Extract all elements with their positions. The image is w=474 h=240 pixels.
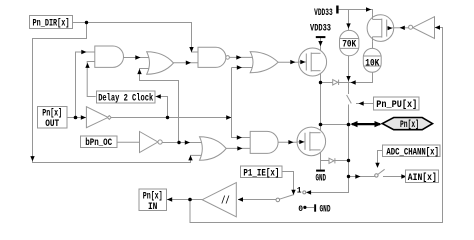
svg-text:Pn[x]: Pn[x]: [400, 119, 419, 131]
svg-text://: //: [221, 196, 230, 208]
svg-text:OUT: OUT: [45, 119, 59, 130]
svg-text:AIN[x]: AIN[x]: [408, 172, 437, 184]
svg-text:Pn[x]: Pn[x]: [42, 108, 62, 120]
svg-text:Pn[x]: Pn[x]: [143, 190, 163, 202]
svg-text:IN: IN: [148, 202, 158, 213]
svg-text:Pn_PU[x]: Pn_PU[x]: [376, 99, 417, 111]
svg-text:70K: 70K: [342, 39, 356, 50]
svg-text:bPn_OC: bPn_OC: [85, 137, 112, 149]
svg-text:VDD33: VDD33: [314, 8, 333, 19]
svg-text:ADC_CHANN[x]: ADC_CHANN[x]: [386, 146, 439, 158]
svg-text:0: 0: [298, 205, 303, 214]
svg-text:VDD33: VDD33: [310, 24, 331, 35]
svg-text:1: 1: [297, 186, 302, 195]
svg-text:GND: GND: [316, 173, 327, 184]
svg-text:P1_IE[x]: P1_IE[x]: [243, 167, 279, 179]
svg-text:Pn_DIR[x]: Pn_DIR[x]: [33, 18, 70, 30]
svg-text:GND: GND: [320, 205, 331, 216]
svg-text:10K: 10K: [365, 58, 379, 69]
svg-text:Delay 2 Clock: Delay 2 Clock: [98, 93, 153, 105]
